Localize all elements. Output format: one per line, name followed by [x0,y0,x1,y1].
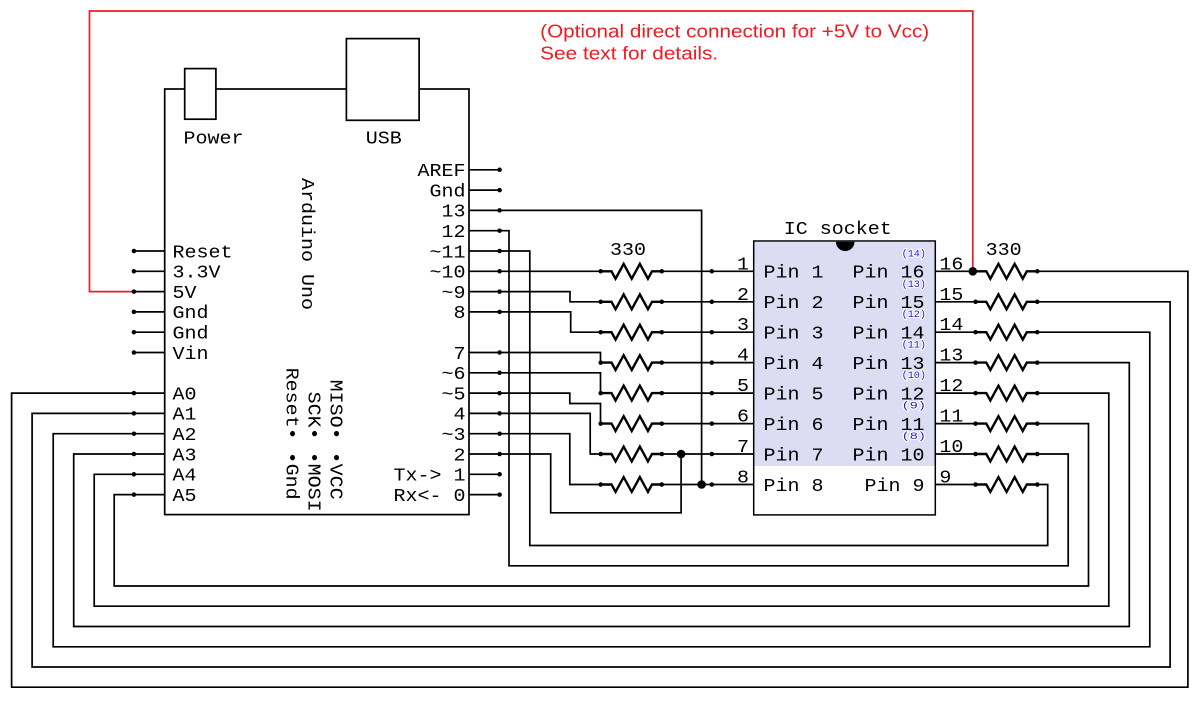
svg-text:1: 1 [737,255,749,275]
wire stub Arduino AREF [469,169,502,171]
pin dot Arduino 2 [497,452,502,457]
junction node Arduino2/R7/IC7 [677,450,686,459]
svg-text:A0: A0 [173,385,197,405]
svg-text:SCK• •MOSI: SCK• •MOSI [302,392,322,512]
pin dot Arduino ~11 [497,249,502,254]
wire stub Arduino Gnd-a [134,311,165,313]
pin dot Arduino A4 [132,472,137,477]
svg-text:IC socket: IC socket [784,220,892,240]
svg-text:~9: ~9 [442,284,466,304]
terminal dot R2 left [598,300,603,305]
svg-text:(10): (10) [902,370,926,382]
wire stub Arduino 5V [134,291,165,293]
svg-text:14: 14 [939,316,963,336]
svg-text:2: 2 [454,446,466,466]
terminal dot R1 left [598,269,603,274]
pin dot IC socket pin 2 [710,300,715,305]
wire R1 to IC socket pin 1 [662,270,754,272]
svg-text:A4: A4 [173,467,197,487]
svg-text:Pin 1: Pin 1 [764,264,824,284]
pin dot IC socket pin 13 [973,360,978,365]
svg-text:5V: 5V [173,284,197,304]
pin dot Arduino A5 [132,492,137,497]
wire R8 to IC socket pin 8 [662,484,754,486]
terminal dot R7 left [598,452,603,457]
svg-text:Pin 4: Pin 4 [764,355,824,375]
svg-text:(8): (8) [902,431,926,443]
junction node +5V/IC16 [969,267,978,276]
pin dot Arduino A0 [132,391,137,396]
pin dot IC socket pin 6 [710,421,715,426]
terminal dot R3 right [660,330,665,335]
wire IC socket pin 9 stub [935,484,975,486]
terminal dot R5 right [660,391,665,396]
svg-text:6: 6 [737,408,749,428]
wire R5 to IC socket pin 5 [662,392,754,394]
wire R3 to IC socket pin 3 [662,331,754,333]
pin dot IC socket pin 11 [973,421,978,426]
pin dot Arduino A1 [132,411,137,416]
svg-text:(12): (12) [902,309,926,321]
svg-text:See text for details.: See text for details. [540,44,718,64]
wire IC socket pin 16 stub [935,270,975,272]
svg-text:16: 16 [939,255,963,275]
svg-text:8: 8 [737,469,749,489]
wire Arduino ~5 to R6 [469,393,601,424]
pin dot IC socket pin 12 [973,391,978,396]
svg-text:Pin 8: Pin 8 [764,477,824,497]
pin dot Arduino 0 [497,492,502,497]
svg-text:(9): (9) [902,401,926,413]
svg-text:Gnd: Gnd [173,304,209,324]
pin dot Arduino 1 [497,472,502,477]
wire stub Arduino Vin [134,352,165,354]
svg-text:Pin 10: Pin 10 [853,446,925,466]
terminal dot R3 left [598,330,603,335]
pin dot Arduino 8 [497,310,502,315]
junction node Arduino13/R8/IC8 [697,480,706,489]
terminal dot R15 right [1035,452,1040,457]
terminal dot R9 right [1035,269,1040,274]
wire R6 to IC socket pin 6 [662,423,754,425]
svg-text:12: 12 [442,223,466,243]
svg-text:330: 330 [986,241,1022,261]
wire net Arduino 12 to IC pin 10 [469,231,1068,566]
wire net Arduino ~11 to IC pin 9 [469,251,1048,546]
resistor R4 330 [601,355,662,370]
pin dot Arduino Reset [132,249,137,254]
wire Arduino ~3 to R8 [469,434,601,485]
svg-text:~3: ~3 [442,426,466,446]
wire net A4 to IC pin 12 [94,393,1109,606]
svg-text:Rx<- 0: Rx<- 0 [394,487,466,507]
wire stub Arduino Gnd [469,189,502,191]
wire R7 to IC socket pin 7 [662,453,754,455]
svg-text:Tx-> 1: Tx-> 1 [394,467,466,487]
svg-text:A1: A1 [173,406,197,426]
terminal dot R14 right [1035,421,1040,426]
pin dot IC socket pin 15 [973,300,978,305]
svg-text:7: 7 [737,438,749,458]
svg-text:A3: A3 [173,446,197,466]
wire IC socket pin 13 stub [935,362,975,364]
wire stub Arduino 1 Tx [469,473,502,475]
wire R2 to IC socket pin 2 [662,301,754,303]
pin dot Arduino Gnd-b [132,330,137,335]
svg-text:MISO• •VCC: MISO• •VCC [324,380,344,500]
terminal dot R10 right [1035,300,1040,305]
svg-text:330: 330 [610,241,646,261]
wire Arduino ~6 to R5 [469,373,601,393]
resistor R2 330 [601,294,662,309]
svg-text:Reset• •Gnd: Reset• •Gnd [280,368,300,500]
pin dot Arduino ~10 [497,269,502,274]
pin dot Arduino 4 [497,411,502,416]
svg-text:4: 4 [454,406,466,426]
resistor R8 330 [601,477,662,492]
resistor R13 330 [976,386,1037,401]
terminal dot R11 right [1035,330,1040,335]
pin dot Arduino Vin [132,350,137,355]
svg-text:Pin 9: Pin 9 [865,477,925,497]
terminal dot R7 right [660,452,665,457]
terminal dot R4 right [660,360,665,365]
svg-text:15: 15 [939,286,963,306]
pin dot IC socket pin 1 [710,269,715,274]
svg-text:Vin: Vin [173,345,209,365]
wire Arduino ~9 to R2 [469,292,601,302]
resistor R11 330 [976,325,1037,340]
svg-text:Pin 3: Pin 3 [764,325,824,345]
resistor R12 330 [976,355,1037,370]
svg-text:(11): (11) [902,340,926,352]
resistor R10 330 [976,294,1037,309]
resistor R15 330 [976,447,1037,462]
Power connector box [185,69,216,120]
wire Arduino 4 to R7 [469,413,601,454]
svg-text:Pin 2: Pin 2 [764,294,824,314]
pin dot Arduino Gnd-a [132,310,137,315]
svg-text:Gnd: Gnd [430,182,466,202]
pin dot IC socket pin 7 [710,452,715,457]
svg-text:10: 10 [939,438,963,458]
resistor R14 330 [976,416,1037,431]
pin dot IC socket pin 8 [710,482,715,487]
terminal dot R2 right [660,300,665,305]
pin dot Arduino ~3 [497,431,502,436]
svg-text:3: 3 [737,316,749,336]
svg-text:~6: ~6 [442,365,466,385]
pin dot Arduino ~9 [497,289,502,294]
wire net A0 to IC pin 16 [12,271,1188,687]
svg-text:Power: Power [184,130,244,150]
pin dot Arduino 7 [497,350,502,355]
USB connector box [346,39,419,121]
svg-text:USB: USB [366,130,402,150]
red optional +5V to Vcc wire [90,11,973,292]
svg-text:4: 4 [737,347,749,367]
pin dot Arduino 12 [497,228,502,233]
resistor R9 330 [976,264,1037,279]
wire stub Arduino 3.3V [134,270,165,272]
resistor R16 330 [976,477,1037,492]
terminal dot R6 right [660,421,665,426]
pin dot Arduino Gnd [497,188,502,193]
wire IC socket pin 12 stub [935,392,975,394]
wire Arduino 7 to R4 [469,353,601,363]
wire IC socket pin 14 stub [935,331,975,333]
svg-text:12: 12 [939,377,963,397]
terminal dot R8 right [660,482,665,487]
terminal dot R6 left [598,421,603,426]
wire net A1 to IC pin 15 [32,302,1170,667]
resistor R3 330 [601,325,662,340]
svg-text:Pin 5: Pin 5 [764,385,824,405]
wire Arduino 13 to node R8 right [469,210,702,484]
svg-text:(Optional direct connection fo: (Optional direct connection for +5V to V… [540,22,929,42]
wire stub Arduino 0 Rx [469,494,502,496]
svg-text:11: 11 [939,408,963,428]
resistor R5 330 [601,386,662,401]
pin dot Arduino ~6 [497,371,502,376]
pin dot Arduino A2 [132,431,137,436]
terminal dot R12 right [1035,360,1040,365]
wire stub Arduino Gnd-b [134,331,165,333]
svg-text:5: 5 [737,377,749,397]
pin dot Arduino 13 [497,208,502,213]
pin dot IC socket pin 10 [973,452,978,457]
resistor R1 330 [601,264,662,279]
resistor R6 330 [601,416,662,431]
terminal dot R1 right [660,269,665,274]
wire Arduino 8 to R3 [469,312,601,332]
IC socket chip body (lavender) [755,242,935,466]
svg-text:~10: ~10 [430,264,466,284]
wire IC socket pin 11 stub [935,423,975,425]
svg-text:(14): (14) [902,248,926,260]
wire net A3 to IC pin 13 [74,363,1130,627]
wire net A2 to IC pin 14 [53,332,1150,647]
pin dot Arduino A3 [132,452,137,457]
svg-text:~11: ~11 [430,243,466,263]
terminal dot R4 left [598,360,603,365]
svg-text:AREF: AREF [418,162,466,182]
terminal dot R16 right [1035,482,1040,487]
svg-text:13: 13 [939,347,963,367]
svg-text:Gnd: Gnd [173,325,209,345]
pin dot Arduino ~5 [497,391,502,396]
pin dot IC socket pin 5 [710,391,715,396]
wire stub Arduino Reset [134,250,165,252]
wire Arduino ~10 to R1 [469,270,601,272]
wire IC socket pin 15 stub [935,301,975,303]
terminal dot R5 left [598,391,603,396]
wire net A5 to IC pin 11 [114,424,1088,586]
pin dot IC socket pin 3 [710,330,715,335]
svg-text:A5: A5 [173,487,197,507]
svg-text:~5: ~5 [442,385,466,405]
pin dot IC socket pin 4 [710,360,715,365]
resistor R7 330 [601,447,662,462]
svg-text:3.3V: 3.3V [173,264,221,284]
pin dot IC socket pin 14 [973,330,978,335]
svg-text:(13): (13) [902,279,926,291]
IC socket pin-1 notch [836,242,855,251]
svg-text:Pin 7: Pin 7 [764,446,824,466]
svg-text:Reset: Reset [173,243,233,263]
svg-text:9: 9 [939,469,951,489]
svg-text:Pin 6: Pin 6 [764,416,824,436]
wire IC socket pin 10 stub [935,453,975,455]
svg-text:7: 7 [454,345,466,365]
terminal dot R13 right [1035,391,1040,396]
terminal dot R8 left [598,482,603,487]
pin dot Arduino AREF [497,168,502,173]
svg-text:8: 8 [454,304,466,324]
svg-text:13: 13 [442,203,466,223]
pin dot Arduino 5V [132,289,137,294]
Arduino Uno board outline [165,89,469,515]
wire Arduino 2 detour to node R7 right [469,454,681,513]
svg-text:A2: A2 [173,426,197,446]
pin dot Arduino 3.3V [132,269,137,274]
pin dot IC socket pin 9 [973,482,978,487]
svg-text:Arduino Uno: Arduino Uno [296,178,316,310]
svg-text:2: 2 [737,286,749,306]
IC socket outline [754,241,936,515]
wire R4 to IC socket pin 4 [662,362,754,364]
